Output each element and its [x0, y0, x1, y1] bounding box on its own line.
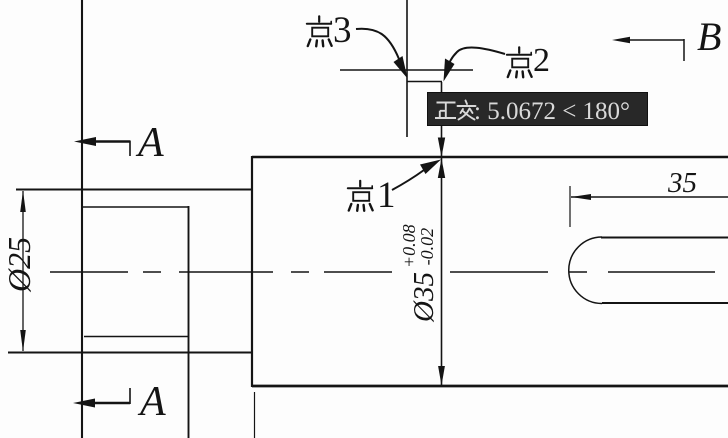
thin extension line below shoulder [254, 392, 256, 438]
top edge of small cylinder + extension line y=189 [16, 189, 252, 191]
tooltip glyph zheng [435, 103, 456, 119]
section marker A (bottom): arrowhead [73, 399, 95, 408]
view marker B: tail [626, 39, 684, 41]
35 dimension arrowhead (left) [571, 194, 591, 200]
ortho tracking vector / dimension line x=441.5 [441, 82, 443, 385]
ortho tooltip box [428, 93, 648, 126]
dia-25 bottom arrowhead [20, 330, 26, 352]
existing horizontal line at y=70 [340, 69, 473, 71]
keyway slot arc (left end) [569, 237, 602, 304]
section cutting line A-A (vertical through left journal, x=82) [81, 0, 83, 438]
view marker B: arrowhead [612, 37, 630, 44]
keyway slot top edge [601, 237, 728, 239]
keyway rectangle bottom edge y=336 [84, 336, 189, 338]
svg-text:B: B [697, 14, 721, 59]
center line (dash-dot) y=272 [50, 271, 715, 273]
leader for point2 [447, 48, 505, 69]
up arrowhead of dia-35 dimension [438, 159, 445, 179]
bottom edge of large cylinder y=386 [252, 385, 728, 388]
svg-text:Ø25: Ø25 [1, 237, 37, 293]
down arrowhead of dia-35 dimension at bottom [438, 366, 445, 386]
svg-text:3: 3 [333, 10, 352, 51]
dimension dia-25: dimension line x=23 [22, 191, 24, 351]
shoulder edge of large cylinder x=252 [251, 156, 253, 387]
dimension 35 line y=197 [571, 196, 728, 198]
dia-25 label (rotated) [1, 237, 37, 293]
svg-text:1: 1 [377, 175, 396, 216]
section marker A (bottom): tick [129, 388, 131, 404]
dia-25 top arrowhead [20, 191, 26, 213]
svg-text:A: A [137, 379, 166, 425]
leader for point1 [392, 170, 424, 190]
bottom edge of small cylinder + extension line y=352.5 [8, 352, 252, 354]
dimension 35: extension line x=570 [569, 186, 571, 227]
drawn segment point3-point2 at y=81.5 [407, 81, 442, 83]
tooltip glyph jiao [458, 101, 476, 120]
construction vertical line x=407 (top) [406, 0, 408, 137]
label point1 (dian 1) glyph [348, 181, 373, 211]
view marker B: tick [683, 39, 685, 61]
down arrowhead of tracking vector at top cylinder line [438, 138, 445, 158]
svg-text:2: 2 [533, 42, 550, 79]
section marker A (top): arrowhead [74, 137, 96, 146]
top edge of large cylinder y=157 [252, 156, 728, 159]
leader for point3 [356, 29, 399, 59]
wire: vertical object/section line x=188 [188, 206, 190, 438]
dia-35 tolerance label (rotated) [399, 224, 440, 323]
section marker A (top): tick [129, 141, 131, 157]
label point2 (dian 2) glyph [507, 47, 532, 77]
keyway slot bottom edge [602, 302, 728, 304]
svg-text:35: 35 [667, 167, 697, 199]
label point3 (dian 3) glyph [307, 16, 332, 46]
svg-text:: 5.0672 < 180°: : 5.0672 < 180° [474, 98, 630, 125]
svg-text:A: A [135, 120, 164, 166]
keyway rectangle top edge y=207 [82, 206, 189, 208]
section marker A (bottom): tail [89, 402, 130, 404]
section marker A (top): tail [90, 140, 130, 142]
